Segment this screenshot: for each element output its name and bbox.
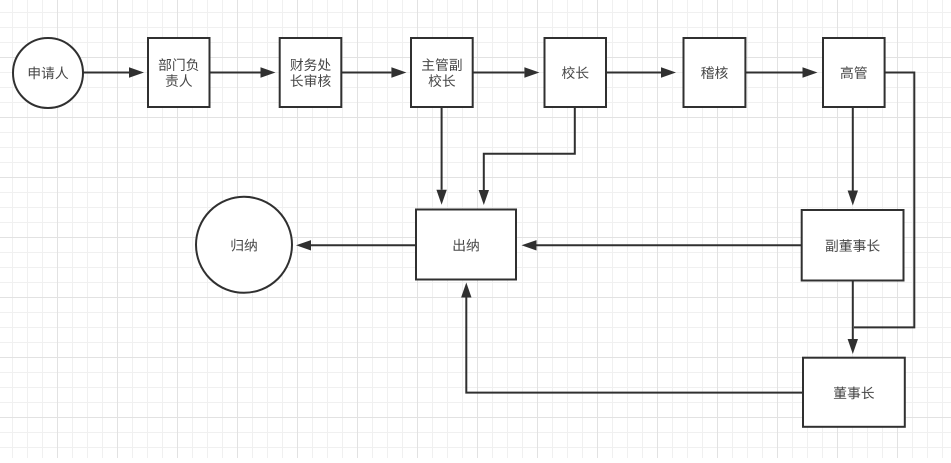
wire 董事长→出纳 (elbow) [466, 298, 803, 393]
wire 校长→出纳 (elbow) [484, 108, 575, 191]
arrowhead into 部门负责人 [129, 67, 144, 77]
arrowhead into 董事长 [848, 339, 858, 354]
wire 高管→right loop [854, 73, 914, 328]
arrowhead into 主管副校长 [391, 67, 406, 77]
arrowhead into 出纳 top-left [436, 190, 446, 205]
label 主管副校长 [422, 58, 461, 87]
label 财务处长审核 [290, 58, 330, 87]
wire 校长→稽核 [606, 72, 661, 74]
circle 申请人 [13, 38, 83, 108]
arrowhead into 校长 [524, 67, 539, 77]
circle 归纳 [196, 197, 292, 293]
label 部门负责人 [159, 58, 199, 87]
arrowhead into 稽核 [661, 67, 676, 77]
wire 主管副校长→校长 [473, 72, 525, 74]
process box 董事长 [803, 358, 905, 427]
process box 高管 [823, 38, 885, 107]
label 归纳 [232, 239, 257, 252]
label 校长 [562, 66, 589, 79]
wire 财务处长审核→主管副校长 [341, 72, 391, 74]
arrowhead into 副董事长 [848, 191, 858, 206]
wire 副董事长→董事长 (vertical) [852, 281, 854, 340]
wire 申请人→部门负责人 [83, 72, 129, 74]
arrowhead into 出纳 bottom [461, 283, 471, 298]
process box 部门负责人 [148, 38, 210, 107]
label 高管 [841, 66, 867, 79]
process box 副董事长 [802, 210, 904, 281]
wire 副董事长→出纳 [537, 244, 802, 246]
process box 稽核 [684, 38, 746, 107]
process box 财务处长审核 [280, 38, 342, 107]
label 出纳 [454, 239, 479, 252]
arrowhead into 高管 [803, 67, 818, 77]
wire 主管副校长→出纳 (vertical) [441, 108, 443, 190]
label 申请人 [29, 67, 68, 80]
arrowhead into 出纳 top-right [479, 190, 489, 205]
label 稽核 [701, 66, 728, 79]
label 董事长 [834, 387, 874, 400]
arrowhead into 归纳 [296, 240, 311, 250]
label 副董事长 [826, 239, 880, 252]
process box 主管副校长 [411, 38, 473, 107]
arrowhead into 出纳 right [522, 240, 537, 250]
wire 部门负责人→财务处长审核 [210, 72, 261, 74]
wire 高管→副董事长 (vertical) [852, 108, 854, 191]
wire 稽核→高管 [745, 72, 802, 74]
wire 出纳→归纳 [311, 244, 416, 246]
arrowhead into 财务处长审核 [261, 67, 276, 77]
process box 校长 [545, 38, 607, 107]
process box 出纳 [416, 210, 516, 280]
